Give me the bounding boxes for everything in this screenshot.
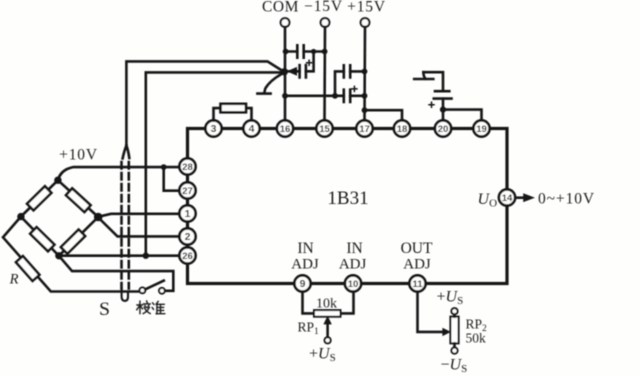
bridge node bottom [55,252,62,259]
node return/COM riser [143,253,149,259]
node COM/C4 [282,93,288,99]
wire pin18 to +15V [365,110,403,120]
wire calibration R branch [3,217,140,292]
capacitor C2 [300,65,306,77]
pin 20 [435,120,451,136]
polarity + of C2 [307,60,312,65]
wire bridge arm LL [21,217,59,256]
pin 3 [205,120,221,136]
wire bridge -out to pin 2 [99,218,180,236]
shield caret [123,146,130,159]
wire bridge +out to pin 1 [98,214,179,217]
terminal -15V [304,0,343,27]
svg-text:1: 1 [185,208,191,220]
svg-text:15: 15 [319,124,330,135]
svg-text:18: 18 [397,124,408,135]
node +15V/C3 [362,69,368,75]
stub hook [423,72,425,79]
cable shield dashed right [128,162,131,289]
svg-text:50k: 50k [466,331,487,346]
resistor bridge UL [27,186,51,210]
svg-text:3: 3 [211,123,217,135]
wire bridge arm UR [58,180,98,217]
pin 19 [473,120,489,136]
pin 28 [179,158,195,174]
RP2 wiper arrow [443,329,450,336]
wire +15V rail to pin 17 [363,27,366,120]
polarity + of C4 [352,86,357,91]
polarity + of C5 [429,102,434,107]
terminal +15V [347,0,386,27]
svg-text:2: 2 [185,231,191,243]
node -15V/C1 [322,49,328,55]
node pin20/C5 [440,107,446,113]
label IN ADJ (pin 9) [291,240,319,273]
switch 校准 lever [145,281,163,290]
svg-text:19: 19 [476,124,487,135]
shield drain wire to COM (outer) [126,61,283,146]
switch 校准 contact left [140,288,146,294]
wire switch return to bridge bottom [59,256,173,291]
switch 校准 contact right [159,288,165,294]
pin 10 [345,275,361,291]
resistor gain set (pins 3-4) [214,104,252,121]
output arrow [516,196,525,199]
wire bridge arm UL [21,180,58,216]
pin 9 [294,275,310,291]
node COM/C1 [283,49,289,55]
label OUT ADJ (pin 11) [401,240,433,273]
cable shield dashed left [120,162,123,289]
svg-text:IN: IN [297,240,313,257]
pin 2 [179,228,195,244]
wire -15V rail to pin 15 [323,27,326,120]
svg-text:14: 14 [502,193,513,204]
label IN ADJ (pin 10) [339,240,367,273]
svg-text:+10V: +10V [59,147,98,164]
pin 15 [316,120,332,136]
ground (analog common) [257,74,281,94]
wire pin 11 to RP2 wiper [418,292,444,332]
wire pin20 junction [442,99,445,121]
node pin27 tap [161,164,167,170]
pin 18 [394,120,410,136]
svg-text:9: 9 [300,278,306,290]
wire COM rail to pin 16 [284,27,287,120]
potentiometer RP1 [303,292,354,344]
svg-text:4: 4 [249,123,255,135]
wire bypass lower (COM to C2) [285,52,314,72]
node COM blob [281,68,288,75]
wire bridge arm LR [59,217,98,256]
svg-text:0~+10V: 0~+10V [538,191,595,208]
svg-text:ADJ: ADJ [339,257,367,273]
svg-text:OUT: OUT [401,240,433,257]
resistor bridge UR [66,188,91,212]
pin 27 [179,182,195,198]
label 校准 (calibration) [137,301,165,314]
resistor R [16,256,39,281]
svg-text:COM: COM [262,0,299,16]
terminal COM [262,0,299,27]
svg-text:26: 26 [182,251,193,262]
capacitor C3 [344,65,350,77]
node bracket/C4 [332,93,338,99]
IC U1 1B31 body [188,129,508,284]
svg-text:11: 11 [412,279,423,290]
stub bar [414,78,433,81]
svg-text:1B31: 1B31 [327,188,368,209]
svg-text:27: 27 [182,186,193,197]
bridge node right [94,213,103,222]
resistor bridge LL [30,227,54,251]
svg-text:10: 10 [348,279,359,290]
potentiometer RP2 [450,308,458,354]
wire C3/C4 left bracket [335,71,365,95]
svg-text:S: S [99,300,110,320]
pin 14 [499,189,515,205]
svg-text:ADJ: ADJ [291,257,319,273]
svg-text:ADJ: ADJ [403,257,431,273]
shield arrow into COM node [288,68,297,75]
node +15V/pin18 [362,107,368,113]
wire tap to pin 27 [164,167,180,191]
svg-text:+15V: +15V [347,0,386,16]
capacitor C1 [297,45,303,57]
wire bridge return to COM (inner) [146,72,284,255]
pin 16 [277,120,293,136]
svg-text:20: 20 [438,124,449,135]
pin 11 [409,275,425,291]
svg-text:−15V: −15V [304,0,343,15]
node C2 bracket [311,49,316,54]
wire C5 to open stub [423,72,443,91]
svg-text:IN: IN [346,240,362,257]
node +15V/C4 [362,93,368,99]
bridge node left [17,213,24,220]
svg-text:28: 28 [182,162,193,173]
resistor bridge LR [61,230,85,254]
wire pin20 node to pin19 [443,110,482,121]
bridge node top [54,177,61,184]
pin 4 [243,120,259,136]
wire bridge return to pin 26 [59,254,180,257]
capacitor C5 [434,91,452,98]
svg-text:17: 17 [359,124,370,135]
capacitor C4 [344,90,350,102]
shield end curl S [122,289,128,301]
pin 17 [356,120,372,136]
wire COM to C4 [285,95,365,98]
svg-text:16: 16 [280,124,291,135]
svg-text:R: R [9,272,19,288]
svg-text:10k: 10k [316,297,337,312]
wire bypass upper (COM to -15V) [285,50,325,53]
wire +10V excitation to pin 28 [58,167,180,180]
pin 26 [179,247,195,263]
pin 1 [179,205,195,221]
